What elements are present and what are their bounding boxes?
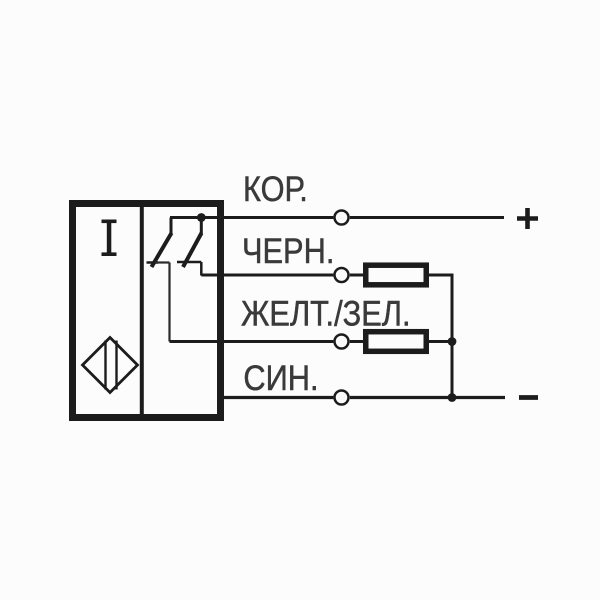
inductive sensor letter I — [102, 220, 117, 257]
wire: blue wire to terminal — [221, 396, 333, 399]
switch 1 pivot drop wire — [168, 263, 170, 342]
wire: brown wire right segment to plus — [350, 216, 504, 219]
wire: blue wire right segment to minus — [350, 396, 505, 399]
switch 1 pivot tick — [147, 261, 159, 264]
wire: terminal 3 to load resistor 2 — [350, 340, 366, 343]
vertical bus wire — [451, 275, 454, 398]
terminal circle 4 (blue) — [335, 391, 349, 405]
switch 1 pivot connector horizontal — [155, 261, 170, 263]
load resistor 1 — [366, 265, 427, 285]
svg-text:ЧЕРН.: ЧЕРН. — [242, 231, 334, 270]
junction node on top rail — [197, 213, 206, 222]
junction dot bus/blue wire — [448, 393, 457, 402]
wire: internal top rail + brown wire to terminal — [170, 216, 333, 219]
wire: resistor 2 to bus — [429, 340, 452, 343]
switch 2 drop wire — [200, 262, 203, 276]
switch 2 fixed terminal — [200, 218, 203, 235]
plus symbol — [517, 208, 538, 229]
svg-text:СИН.: СИН. — [243, 358, 318, 397]
junction dot bus/resistor2 — [448, 337, 457, 346]
svg-text:КОР.: КОР. — [243, 169, 308, 208]
wire: yellow/green wire to terminal — [170, 340, 334, 343]
minus symbol — [519, 395, 538, 400]
switch 2 moving contact — [183, 233, 202, 267]
switch 1 fixed terminal — [170, 218, 173, 235]
wire: black wire from switch to terminal — [201, 274, 333, 277]
compartment divider — [140, 204, 144, 418]
proximity switch diamond symbol — [83, 338, 138, 393]
switch 2 pivot tick — [177, 261, 201, 264]
switch 1 moving contact — [152, 233, 172, 267]
svg-text:ЖЕЛТ./ЗЕЛ.: ЖЕЛТ./ЗЕЛ. — [241, 294, 411, 333]
load resistor 2 — [366, 332, 427, 352]
terminal circle 2 (black) — [335, 268, 349, 282]
sensor body outline — [73, 204, 221, 418]
diamond inner right line — [115, 341, 117, 390]
wire: terminal 2 to load resistor 1 — [350, 274, 366, 277]
terminal circle 3 (yellow/green) — [335, 335, 349, 349]
terminal circle 1 (brown) — [335, 211, 349, 225]
wire: resistor 1 to bus — [429, 274, 454, 277]
diamond inner left line — [104, 341, 106, 390]
